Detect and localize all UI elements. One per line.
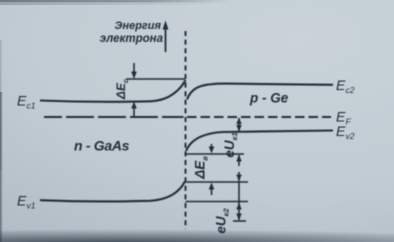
svg-text:ΔEв: ΔEв [193,156,210,180]
svg-text:F: F [346,117,352,127]
svg-text:eUк1: eUк1 [222,132,239,157]
svg-text:ΔEc: ΔEc [114,78,130,100]
svg-text:c2: c2 [346,85,355,95]
svg-text:электрона: электрона [100,33,164,45]
svg-text:v2: v2 [346,131,355,141]
svg-text:v1: v1 [27,201,36,211]
svg-text:eUк2: eUк2 [214,208,231,234]
svg-text:E: E [336,77,346,93]
svg-text:E: E [17,193,27,209]
svg-text:Энергия: Энергия [115,20,162,32]
svg-text:c1: c1 [27,101,36,111]
svg-text:n - GaAs: n - GaAs [74,138,130,154]
svg-text:E: E [17,93,27,109]
svg-text:E: E [336,123,346,139]
svg-text:p - Ge: p - Ge [249,91,289,106]
